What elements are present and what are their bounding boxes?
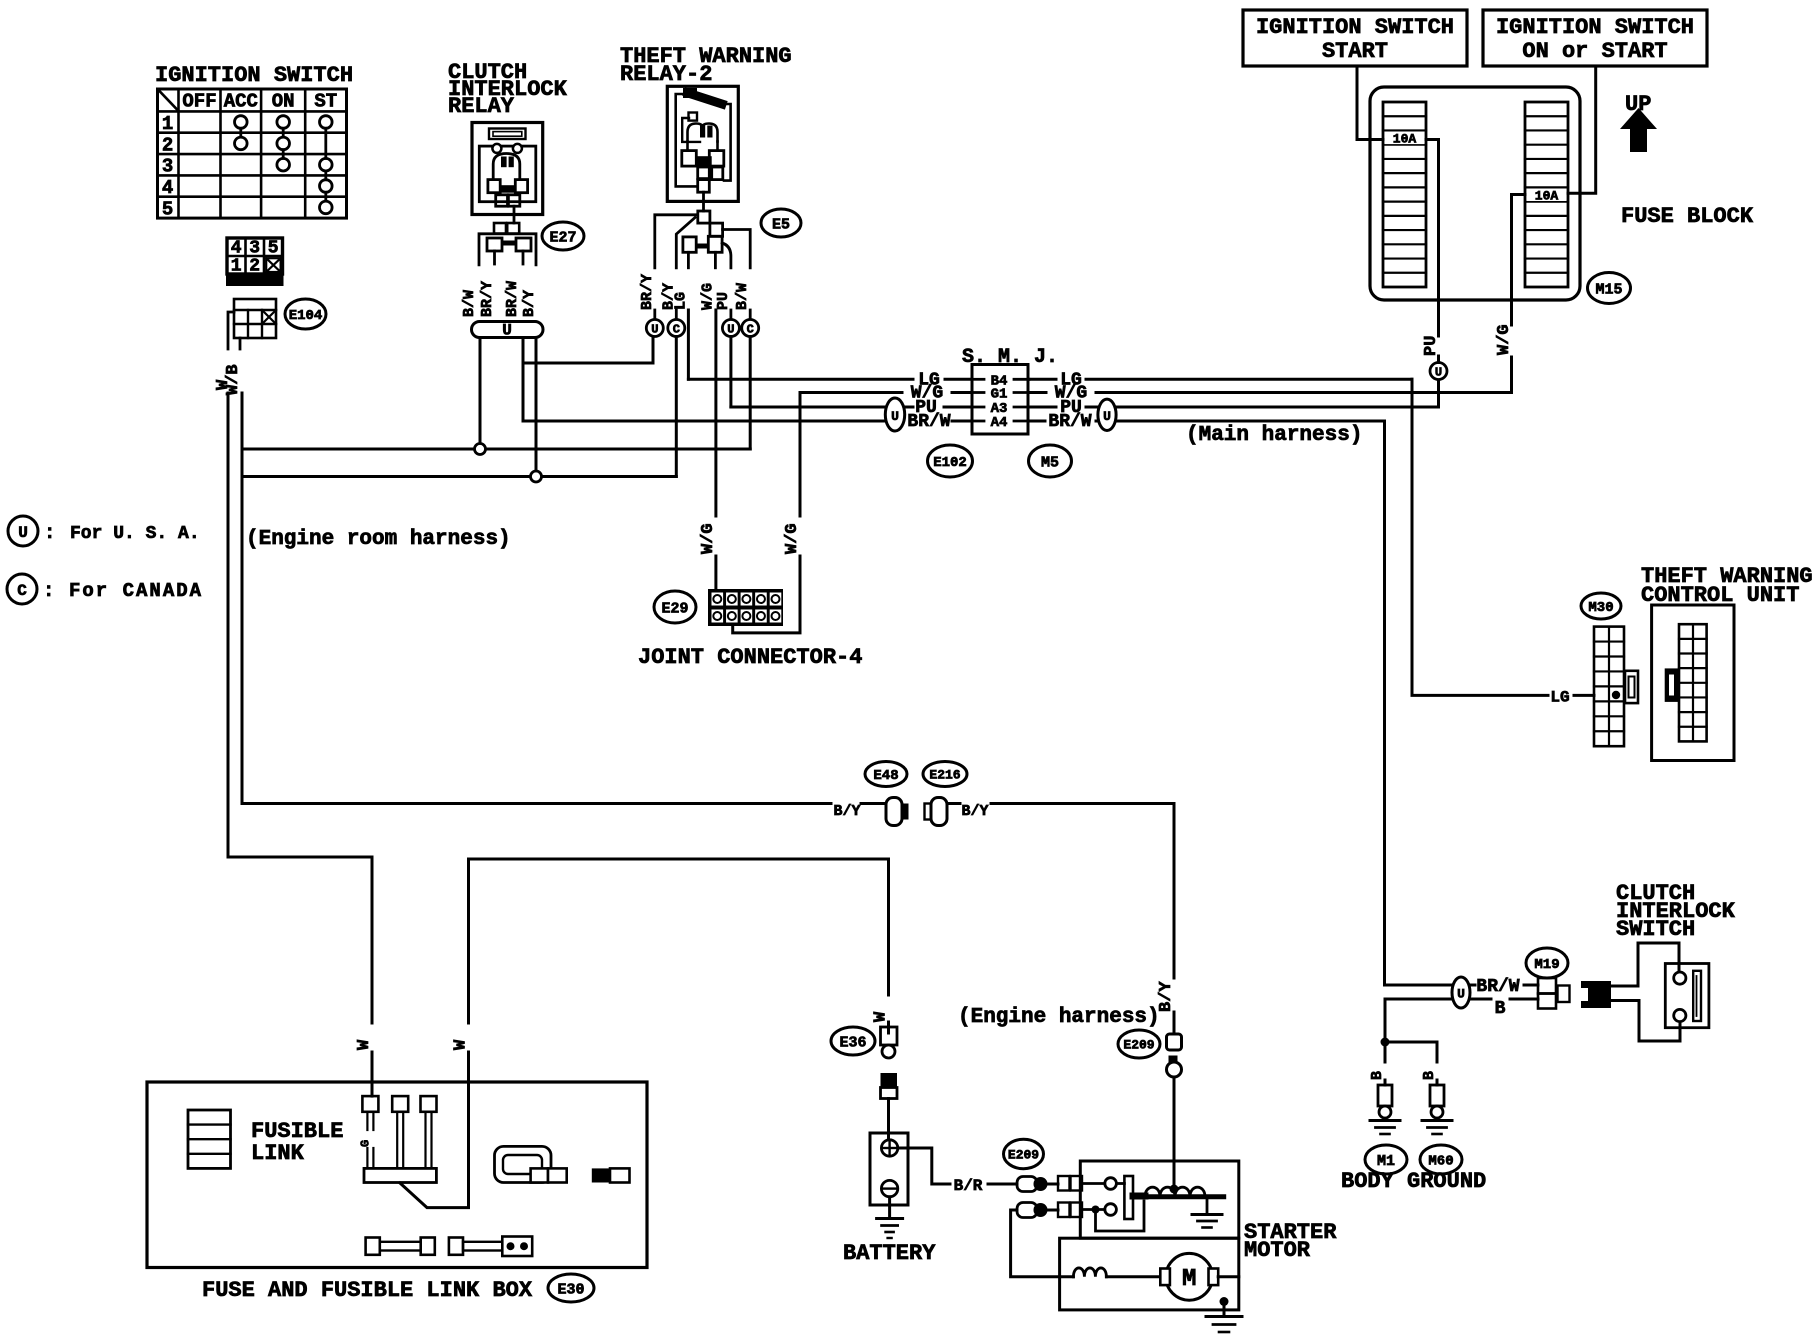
svg-text:4: 4: [162, 177, 173, 199]
svg-text:U: U: [18, 524, 28, 542]
svg-text:IGNITION SWITCH: IGNITION SWITCH: [1496, 15, 1694, 40]
svg-text:PU: PU: [715, 292, 732, 310]
svg-text:ON or START: ON or START: [1522, 39, 1667, 64]
svg-text:M19: M19: [1534, 957, 1559, 973]
svg-text:3: 3: [249, 239, 260, 259]
svg-text:W/G: W/G: [783, 523, 802, 554]
svg-text:RELAY: RELAY: [448, 94, 515, 119]
svg-text:B/Y: B/Y: [833, 803, 860, 820]
svg-text:U: U: [1435, 365, 1442, 379]
svg-text:U: U: [1457, 987, 1465, 1002]
svg-text:E29: E29: [661, 600, 688, 617]
svg-text:U: U: [651, 322, 658, 336]
svg-text:FUSE AND FUSIBLE LINK BOX: FUSE AND FUSIBLE LINK BOX: [202, 1278, 533, 1303]
svg-text:2: 2: [249, 257, 260, 277]
svg-text:B/Y: B/Y: [1157, 981, 1176, 1012]
svg-text:M60: M60: [1428, 1154, 1453, 1170]
svg-text:1: 1: [231, 257, 242, 277]
svg-text:C: C: [673, 322, 680, 336]
svg-text:B/Y: B/Y: [521, 290, 538, 317]
svg-text:2: 2: [162, 134, 173, 156]
svg-text:5: 5: [268, 239, 279, 259]
svg-text:LG: LG: [1550, 689, 1569, 707]
svg-text:BR/W: BR/W: [1048, 412, 1091, 432]
svg-text:(Main harness): (Main harness): [1186, 424, 1362, 447]
svg-text:START: START: [1322, 39, 1388, 64]
svg-text:1: 1: [162, 113, 173, 135]
svg-text:M30: M30: [1588, 600, 1613, 616]
svg-text:10A: 10A: [1535, 189, 1559, 204]
svg-text:W/G: W/G: [699, 523, 718, 554]
svg-text:ACC: ACC: [224, 91, 258, 113]
svg-text:LG: LG: [672, 292, 689, 310]
svg-text:B/Y: B/Y: [961, 803, 988, 820]
svg-text:M: M: [1182, 1266, 1196, 1293]
svg-text:BR/Y: BR/Y: [639, 274, 656, 310]
svg-text:FUSE BLOCK: FUSE BLOCK: [1621, 204, 1754, 229]
svg-text:E209: E209: [1008, 1148, 1039, 1163]
svg-text:M15: M15: [1595, 281, 1622, 298]
svg-text:PU: PU: [1422, 336, 1441, 356]
svg-text:U: U: [727, 322, 734, 336]
svg-text::: :: [44, 522, 55, 544]
svg-text:W/G: W/G: [1495, 324, 1514, 355]
svg-text:E209: E209: [1123, 1038, 1154, 1053]
svg-text:C: C: [747, 322, 754, 336]
svg-text:BR/W: BR/W: [504, 281, 521, 317]
svg-text:E5: E5: [772, 216, 790, 233]
svg-text:(Engine room harness): (Engine room harness): [246, 528, 511, 551]
svg-text:BATTERY: BATTERY: [843, 1241, 936, 1266]
svg-text:3: 3: [162, 156, 173, 178]
svg-text:OFF: OFF: [182, 91, 216, 113]
svg-text:BR/Y: BR/Y: [479, 281, 496, 317]
svg-text:C: C: [17, 582, 27, 600]
svg-text:A4: A4: [991, 415, 1008, 431]
svg-text:W: W: [452, 1039, 471, 1050]
svg-text:E48: E48: [873, 768, 898, 784]
svg-text:5: 5: [162, 198, 173, 220]
svg-text:E216: E216: [929, 768, 960, 783]
svg-text:W: W: [872, 1011, 891, 1022]
svg-text:E30: E30: [557, 1281, 584, 1298]
svg-text:U: U: [891, 409, 899, 424]
svg-text:E27: E27: [549, 229, 576, 246]
svg-text:M5: M5: [1041, 454, 1059, 471]
svg-text:E36: E36: [839, 1034, 866, 1051]
svg-text:W: W: [355, 1039, 374, 1050]
svg-text:ST: ST: [314, 91, 337, 113]
svg-text:(Engine harness): (Engine harness): [958, 1006, 1160, 1029]
svg-text:BR/W: BR/W: [907, 412, 950, 432]
svg-text:4: 4: [231, 239, 242, 259]
svg-text:E102: E102: [933, 455, 967, 471]
svg-text:10A: 10A: [1393, 132, 1417, 147]
svg-text:BR/W: BR/W: [1476, 977, 1519, 997]
svg-text:W/B: W/B: [224, 364, 243, 395]
svg-text:U: U: [1103, 409, 1111, 424]
svg-text:RELAY-2: RELAY-2: [620, 62, 712, 87]
svg-text:B: B: [1495, 999, 1506, 1019]
svg-text:W/G: W/G: [699, 283, 716, 310]
svg-text:IGNITION SWITCH: IGNITION SWITCH: [155, 63, 353, 88]
svg-text:B/W: B/W: [461, 290, 478, 317]
svg-text:For CANADA: For CANADA: [69, 580, 203, 602]
svg-text:G: G: [358, 1140, 372, 1147]
svg-text:E104: E104: [289, 308, 323, 324]
svg-text:For U. S. A.: For U. S. A.: [70, 524, 200, 544]
svg-text:SWITCH: SWITCH: [1616, 917, 1695, 942]
svg-text:LINK: LINK: [251, 1141, 305, 1166]
svg-text:B: B: [1421, 1071, 1438, 1080]
svg-text:JOINT CONNECTOR-4: JOINT CONNECTOR-4: [638, 645, 862, 670]
svg-text:MOTOR: MOTOR: [1244, 1238, 1311, 1263]
svg-text:ON: ON: [272, 91, 295, 113]
svg-text:IGNITION SWITCH: IGNITION SWITCH: [1256, 15, 1454, 40]
svg-text:U: U: [502, 322, 512, 340]
svg-text:M1: M1: [1377, 1153, 1395, 1170]
svg-text::: :: [43, 580, 54, 602]
svg-text:BODY GROUND: BODY GROUND: [1341, 1169, 1486, 1194]
svg-text:B/W: B/W: [734, 283, 751, 310]
svg-text:B/R: B/R: [954, 1177, 983, 1195]
svg-text:B: B: [1369, 1071, 1386, 1080]
